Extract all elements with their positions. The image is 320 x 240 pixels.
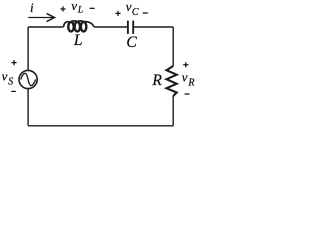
svg-text:v: v xyxy=(182,69,188,84)
svg-text:i: i xyxy=(30,0,34,15)
svg-text:S: S xyxy=(8,76,13,87)
svg-text:C: C xyxy=(132,7,139,18)
svg-text:R: R xyxy=(187,77,194,88)
svg-text:L: L xyxy=(73,32,83,49)
svg-text:v: v xyxy=(2,68,8,83)
svg-text:v: v xyxy=(126,0,132,14)
svg-text:C: C xyxy=(126,34,137,51)
svg-text:v: v xyxy=(71,0,77,13)
svg-text:R: R xyxy=(151,72,162,89)
svg-text:L: L xyxy=(77,6,83,16)
